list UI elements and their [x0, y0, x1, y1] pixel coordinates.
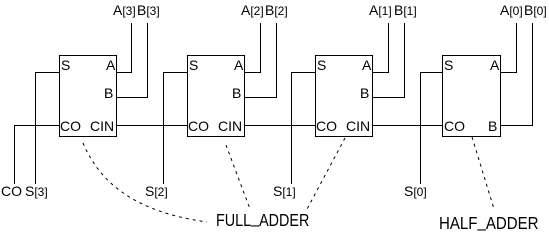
- wire net A[0] horizontal to FA0 pin A: [501, 72, 516, 73]
- net label S[0]: [404, 184, 427, 199]
- FA0 pin label S: [444, 58, 453, 72]
- wire net S[2] vertical drop: [163, 72, 164, 184]
- wire net S[3] horizontal from FA3 pin S: [35, 72, 59, 73]
- wire net S[1] vertical drop: [291, 72, 292, 184]
- half-adder FA0 body: [442, 55, 501, 137]
- wire net A[0] vertical drop: [516, 23, 517, 73]
- net label A[0]: [500, 3, 523, 18]
- net label B[2]: [265, 3, 288, 18]
- wire net B[2] vertical drop: [276, 23, 277, 98]
- net label S[2]: [145, 184, 168, 199]
- net label S[1]: [273, 184, 296, 199]
- FA0 pin label A: [490, 58, 499, 72]
- wire net A[1] horizontal to FA1 pin A: [373, 72, 388, 73]
- full-adder FA2 body: [187, 55, 245, 137]
- wire carry bus FA1 CIN to FA0 CO: [373, 125, 442, 126]
- net label A[1]: [369, 3, 392, 18]
- dashed leader from FA1 to FULL_ADDER label: [306, 138, 345, 211]
- wire net CO horizontal from FA3 pin CO: [14, 125, 59, 126]
- wire carry bus FA2 CIN to FA1 CO: [245, 125, 315, 126]
- FA3 pin label A: [106, 58, 115, 72]
- FA1 pin label S: [317, 58, 326, 72]
- FA2 pin label S: [189, 58, 198, 72]
- FA1 pin label CO: [316, 119, 337, 133]
- FA1 pin label B: [360, 86, 369, 100]
- net label B[3]: [137, 3, 160, 18]
- wire net B[2] horizontal to FA2 pin B: [245, 97, 276, 98]
- wire net S[3] vertical drop: [35, 72, 36, 184]
- wire carry bus FA3 CIN to FA2 CO: [117, 125, 187, 126]
- net label CO: [1, 184, 22, 198]
- wire net B[0] vertical drop: [532, 23, 533, 126]
- net label A[3]: [113, 3, 136, 18]
- dashed leader from FA3 to FULL_ADDER label: [83, 143, 207, 222]
- FA2 pin label CO: [188, 119, 209, 133]
- wire net B[3] vertical drop: [147, 23, 148, 98]
- FA3 pin label S: [61, 58, 70, 72]
- FA1 pin label A: [362, 58, 371, 72]
- FA2 pin label B: [232, 86, 241, 100]
- wire net A[3] horizontal to FA3 pin A: [117, 72, 131, 73]
- wire net A[2] vertical drop: [260, 23, 261, 73]
- dashed leader from FA0 to HALF_ADDER label: [472, 137, 494, 209]
- wire net B[1] vertical drop: [404, 23, 405, 98]
- wire net S[0] vertical drop: [420, 72, 421, 184]
- FA2 pin label A: [234, 58, 243, 72]
- FA0 pin label CO: [444, 119, 465, 133]
- net label S[3]: [25, 184, 48, 199]
- wire net S[0] horizontal from FA0 pin S: [420, 72, 442, 73]
- component type label FULL_ADDER: [216, 212, 309, 230]
- wire net A[1] vertical drop: [388, 23, 389, 73]
- wire net CO vertical drop: [14, 125, 15, 184]
- full-adder FA3 body: [59, 55, 117, 137]
- dashed leader from FA2 to FULL_ADDER label: [226, 145, 250, 209]
- full-adder FA1 body: [315, 55, 373, 137]
- wire net B[3] horizontal to FA3 pin B: [117, 97, 147, 98]
- wire net A[3] vertical drop: [131, 23, 132, 73]
- FA3 pin label CO: [60, 119, 81, 133]
- wire net B[1] horizontal to FA1 pin B: [373, 97, 404, 98]
- FA1 pin label CIN: [346, 119, 370, 133]
- FA3 pin label CIN: [90, 119, 114, 133]
- component type label HALF_ADDER: [439, 215, 539, 233]
- FA3 pin label B: [104, 86, 113, 100]
- wire net S[1] horizontal from FA1 pin S: [291, 72, 315, 73]
- wire net B[0] horizontal to FA0 pin B: [501, 125, 532, 126]
- net label B[0]: [524, 3, 547, 18]
- FA2 pin label CIN: [218, 119, 242, 133]
- wire net A[2] horizontal to FA2 pin A: [245, 72, 260, 73]
- net label B[1]: [394, 3, 417, 18]
- wire net S[2] horizontal from FA2 pin S: [163, 72, 187, 73]
- FA0 pin label B: [488, 119, 497, 133]
- net label A[2]: [241, 3, 264, 18]
